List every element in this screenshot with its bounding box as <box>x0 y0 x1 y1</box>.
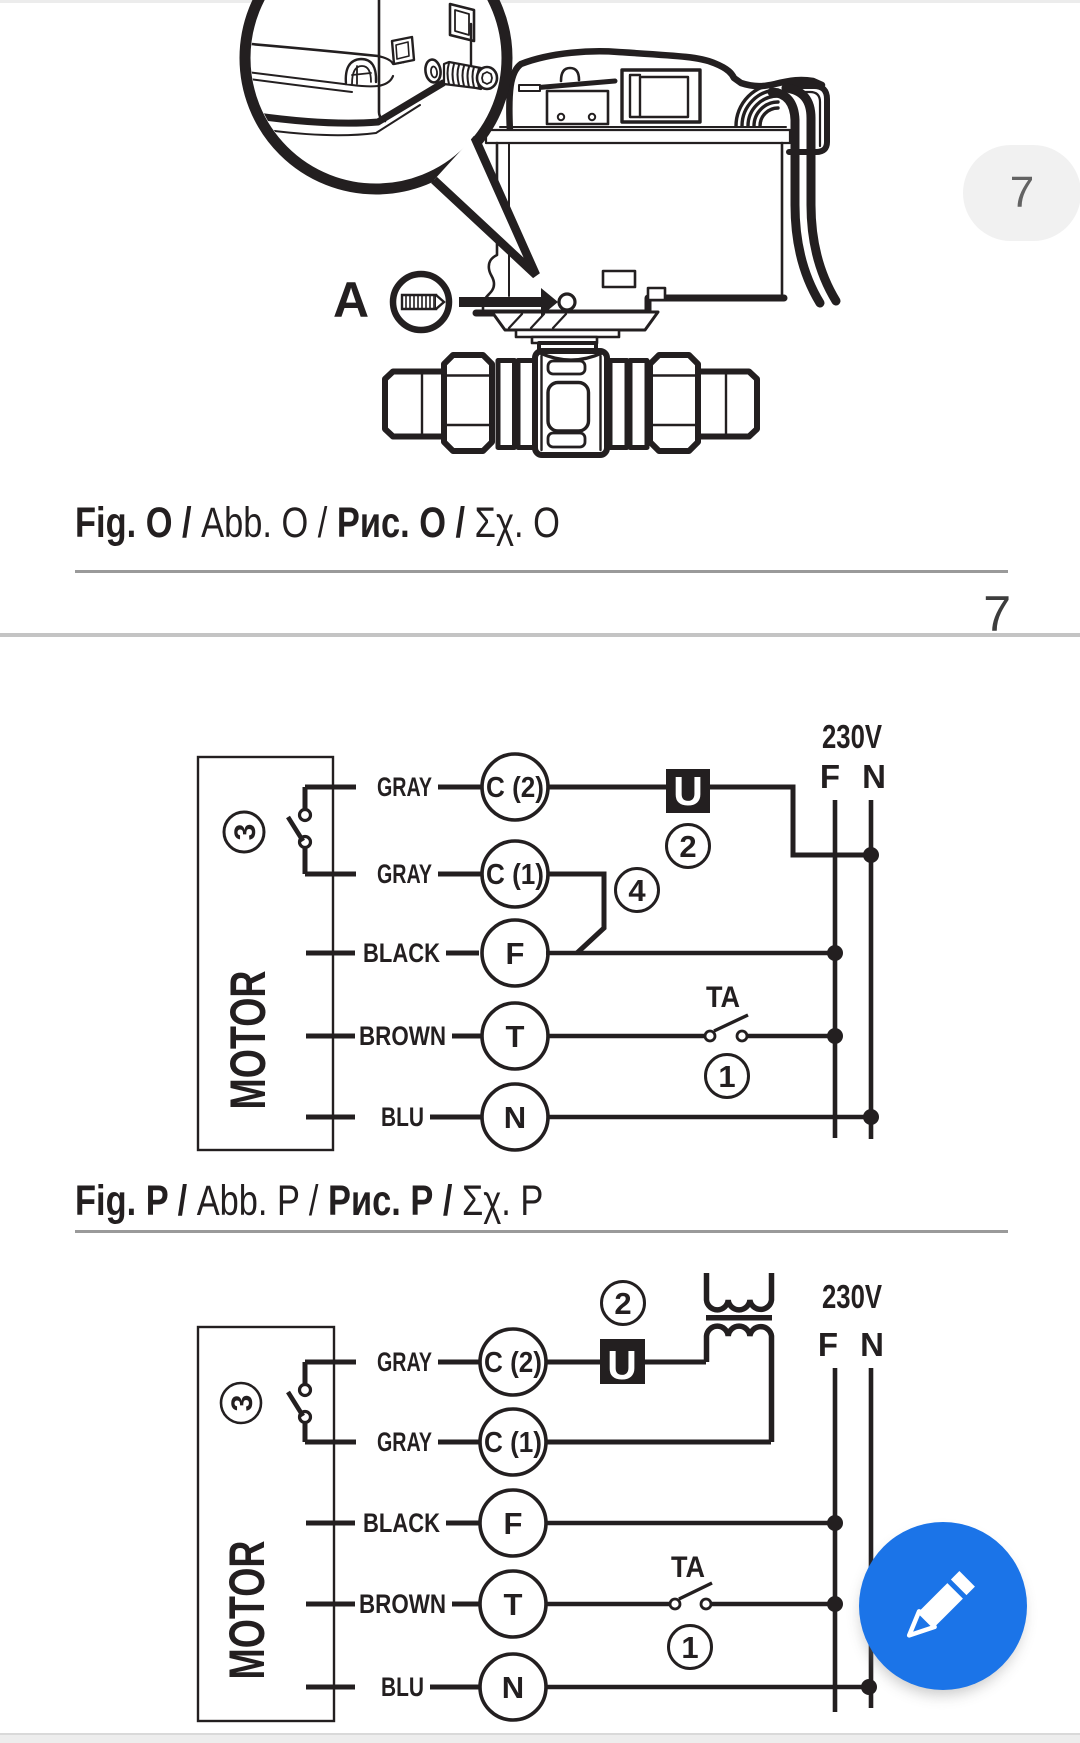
wire stub brown <box>306 1034 355 1039</box>
wire coil arcs <box>736 84 778 126</box>
callout tail <box>434 136 536 275</box>
lid scoop inner <box>352 66 371 84</box>
svg-text:BROWN: BROWN <box>359 1021 446 1051</box>
screw thread ridges <box>448 63 480 88</box>
stem step <box>532 337 597 343</box>
right flange strip 1 <box>610 361 627 448</box>
FAB edit button <box>859 1522 1027 1690</box>
svg-text:230V: 230V <box>822 1278 882 1315</box>
body top slot <box>548 361 585 374</box>
actuator base plate <box>486 130 790 143</box>
terminal N 2 <box>480 1654 546 1720</box>
valve right union nut <box>650 355 698 451</box>
transformer primary <box>707 1326 772 1442</box>
microswitch lever <box>521 81 615 89</box>
housing bottom heavy edge <box>257 83 443 123</box>
TA contact left 2 <box>670 1599 680 1609</box>
valve stem <box>539 343 596 354</box>
svg-text:C (1): C (1) <box>484 1427 542 1459</box>
svg-text:F: F <box>506 936 525 971</box>
terminal F 2 <box>480 1490 546 1556</box>
wire C2 to U <box>548 785 666 790</box>
actuator bottom heavy edge <box>476 298 784 313</box>
svg-text:F: F <box>818 1326 838 1363</box>
screw hole ellipse <box>424 59 442 84</box>
solenoid inner frame <box>640 77 688 117</box>
U box <box>666 769 710 813</box>
switch blade <box>288 817 303 841</box>
svg-text:C (2): C (2) <box>484 1347 542 1379</box>
wire gray1 to C2 2 <box>438 1360 482 1365</box>
adjustment hole <box>559 294 575 310</box>
bottom separator <box>0 1733 1080 1735</box>
actuator inner left line <box>508 143 510 296</box>
svg-text:2: 2 <box>614 1286 631 1321</box>
screw icon body <box>402 295 444 309</box>
solenoid outer frame <box>622 70 700 122</box>
motor box <box>198 757 333 1150</box>
svg-text:BLACK: BLACK <box>363 938 440 968</box>
TA contact right <box>737 1031 747 1041</box>
wire stub black 2 <box>306 1521 355 1526</box>
left nut facet lines <box>445 376 491 426</box>
screw shank <box>444 62 481 89</box>
actuator inner base line <box>500 126 786 128</box>
microswitch rivet left <box>558 114 564 120</box>
housing corner vertical edge <box>379 0 385 121</box>
wire gray2 to C1 2 <box>438 1440 481 1445</box>
lid scoop <box>346 59 376 84</box>
svg-text:MOTOR: MOTOR <box>219 1541 275 1680</box>
svg-text:U: U <box>607 1342 637 1388</box>
svg-text:BROWN: BROWN <box>359 1589 446 1619</box>
junction F <box>827 945 843 961</box>
circled 1 <box>706 1055 749 1098</box>
terminal C2 2 <box>480 1329 546 1395</box>
microswitch rivet right <box>589 114 595 120</box>
wire brown to T 2 <box>452 1602 482 1607</box>
corner tab right <box>450 4 474 41</box>
actuator cover fill <box>509 51 822 132</box>
wire T row right <box>747 1034 835 1039</box>
terminal C1 <box>482 841 548 907</box>
svg-text:N: N <box>862 758 886 795</box>
switch contact upper <box>300 810 311 821</box>
microswitch lever foot <box>519 85 540 91</box>
screw head <box>477 67 497 89</box>
svg-text:GRAY: GRAY <box>377 772 432 802</box>
wire F row 2 <box>546 1521 835 1526</box>
left pipe weld line <box>421 372 423 437</box>
switch blade 2 <box>288 1392 303 1416</box>
wire C1 corner <box>548 874 604 953</box>
right nut facet lines <box>651 376 697 426</box>
body top dome <box>540 353 602 360</box>
housing bottom thickness line <box>259 105 420 135</box>
actuator lower body sides <box>483 143 782 311</box>
actuator small label rect <box>603 271 635 287</box>
actuator cover outline <box>509 51 822 132</box>
screw torx socket <box>482 72 492 84</box>
callout circle <box>245 0 507 189</box>
wire stub brown 2 <box>306 1602 355 1607</box>
lid corner wrap <box>378 56 404 86</box>
wire blu to N <box>430 1115 482 1120</box>
arrow A <box>459 288 558 316</box>
wire F row <box>546 951 835 956</box>
corner tab mid <box>392 37 414 64</box>
motor box 2 <box>198 1327 334 1721</box>
wire T row left 2 <box>546 1602 670 1607</box>
corner tab mid inner <box>396 42 409 59</box>
microswitch roller dome <box>561 68 579 81</box>
switch contact lower <box>300 837 311 848</box>
limit switch assembly <box>305 787 356 874</box>
left flange strip 2 <box>518 361 535 448</box>
N bus <box>869 800 874 1139</box>
hatch lines <box>509 314 566 328</box>
terminal C2 <box>482 754 548 820</box>
pencil icon <box>902 1571 975 1644</box>
terminal T <box>482 1003 548 1069</box>
tab edge vertical <box>470 24 472 70</box>
valve group <box>385 312 757 455</box>
wire brown to T <box>452 1034 482 1039</box>
wire N row 2 <box>546 1685 869 1690</box>
wire gray2 to C1 <box>438 872 481 877</box>
valve right pipe end <box>698 372 757 437</box>
terminal T 2 <box>480 1571 546 1637</box>
wire stub black <box>306 951 355 956</box>
svg-text:GRAY: GRAY <box>377 1427 432 1457</box>
junction T <box>827 1028 843 1044</box>
rule under Fig O <box>75 570 1008 573</box>
circled 3 fig2 <box>221 1383 261 1423</box>
junction N 2 <box>861 1679 877 1695</box>
rule under Fig P <box>75 1230 1008 1233</box>
body inner side lines <box>542 356 601 450</box>
TA blade <box>714 1015 748 1031</box>
top page edge <box>0 0 1080 3</box>
cable 2 <box>786 88 836 301</box>
TA contact left <box>705 1031 715 1041</box>
wire T row left <box>548 1034 705 1039</box>
microswitch body <box>547 91 608 124</box>
F bus <box>833 800 838 1138</box>
junction U-N <box>863 847 879 863</box>
transformer core bar <box>706 1315 772 1321</box>
actuator cable bracket ear <box>789 86 827 152</box>
terminal F <box>482 920 548 986</box>
svg-text:N: N <box>860 1326 884 1363</box>
cable 1 <box>772 92 820 303</box>
page 7 pill <box>963 145 1080 241</box>
wire U to transformer <box>645 1360 706 1365</box>
svg-text:N: N <box>502 1670 524 1705</box>
U box 2 <box>600 1339 645 1384</box>
svg-text:C (1): C (1) <box>486 859 544 891</box>
svg-text:2: 2 <box>679 829 696 864</box>
housing lid band top <box>251 44 378 56</box>
wire C2 to U 2 <box>546 1360 600 1365</box>
screw icon circle <box>393 274 449 330</box>
wire black to F <box>446 951 479 956</box>
valve left union nut <box>444 355 492 451</box>
circled 2 <box>667 825 710 868</box>
svg-text:1: 1 <box>718 1059 735 1094</box>
valve left pipe end <box>385 372 444 437</box>
stem flange <box>516 330 619 337</box>
F bus 2 <box>833 1368 838 1712</box>
body bottom slot <box>548 433 585 447</box>
svg-text:4: 4 <box>628 873 646 908</box>
wire stub blu <box>306 1115 355 1120</box>
svg-text:N: N <box>504 1100 526 1135</box>
svg-text:GRAY: GRAY <box>377 859 432 889</box>
body inner panel <box>548 383 589 432</box>
svg-text:BLU: BLU <box>381 1102 424 1132</box>
junction T 2 <box>827 1596 843 1612</box>
wire stub blu 2 <box>306 1685 355 1690</box>
ear inner line <box>791 92 820 146</box>
page separator <box>0 633 1080 637</box>
TA contact right 2 <box>701 1599 711 1609</box>
right pipe weld line <box>725 372 727 437</box>
N bus 2 <box>869 1368 874 1708</box>
svg-text:C (2): C (2) <box>486 772 544 804</box>
housing lid band lower lines <box>247 72 378 92</box>
actuator step notch <box>648 288 665 300</box>
circled 4 <box>616 869 659 912</box>
svg-text:U: U <box>673 768 703 814</box>
TA blade 2 <box>679 1583 712 1599</box>
junction F 2 <box>827 1515 843 1531</box>
wire N row <box>548 1115 871 1120</box>
svg-text:T: T <box>506 1019 525 1054</box>
wire gray1 to C2 <box>438 785 482 790</box>
svg-text:BLU: BLU <box>381 1672 424 1702</box>
screw hole inner <box>430 66 437 78</box>
svg-text:T: T <box>504 1587 523 1622</box>
solenoid left bracket <box>630 75 640 117</box>
terminal N <box>482 1084 548 1150</box>
circled 3 <box>224 812 264 852</box>
svg-text:3: 3 <box>229 824 262 841</box>
svg-text:MOTOR: MOTOR <box>220 971 276 1110</box>
terminal C1 2 <box>480 1409 546 1475</box>
svg-text:F: F <box>820 758 840 795</box>
limit switch assembly 2 <box>305 1362 356 1442</box>
svg-text:3: 3 <box>226 1395 259 1412</box>
valve central body <box>535 351 607 455</box>
svg-text:F: F <box>504 1506 523 1541</box>
switch contact lower 2 <box>300 1412 311 1423</box>
wire blu to N 2 <box>430 1685 482 1690</box>
svg-text:BLACK: BLACK <box>363 1508 440 1538</box>
junction N <box>863 1109 879 1125</box>
svg-text:1: 1 <box>681 1630 698 1665</box>
svg-text:230V: 230V <box>822 718 882 755</box>
transformer secondary <box>707 1273 772 1310</box>
caption Fig O <box>75 499 560 548</box>
right flange strip 2 <box>630 361 647 448</box>
stem hatch platform <box>492 312 658 330</box>
wire C1 to transformer <box>546 1440 771 1445</box>
svg-text:GRAY: GRAY <box>377 1347 432 1377</box>
svg-text:A: A <box>333 272 369 328</box>
svg-text:TA: TA <box>706 981 740 1014</box>
wire U to N bus <box>710 787 871 855</box>
circled 2 fig2 <box>602 1282 645 1325</box>
svg-text:TA: TA <box>671 1551 705 1584</box>
wire black to F 2 <box>446 1521 479 1526</box>
left flange strip 1 <box>498 361 515 448</box>
page number 7 <box>983 585 1011 643</box>
switch contact upper 2 <box>300 1385 311 1396</box>
caption Fig P <box>75 1177 543 1226</box>
wire T row right 2 <box>711 1602 835 1607</box>
corner tab right inner <box>455 10 469 35</box>
circled 1 fig2 <box>669 1626 712 1669</box>
